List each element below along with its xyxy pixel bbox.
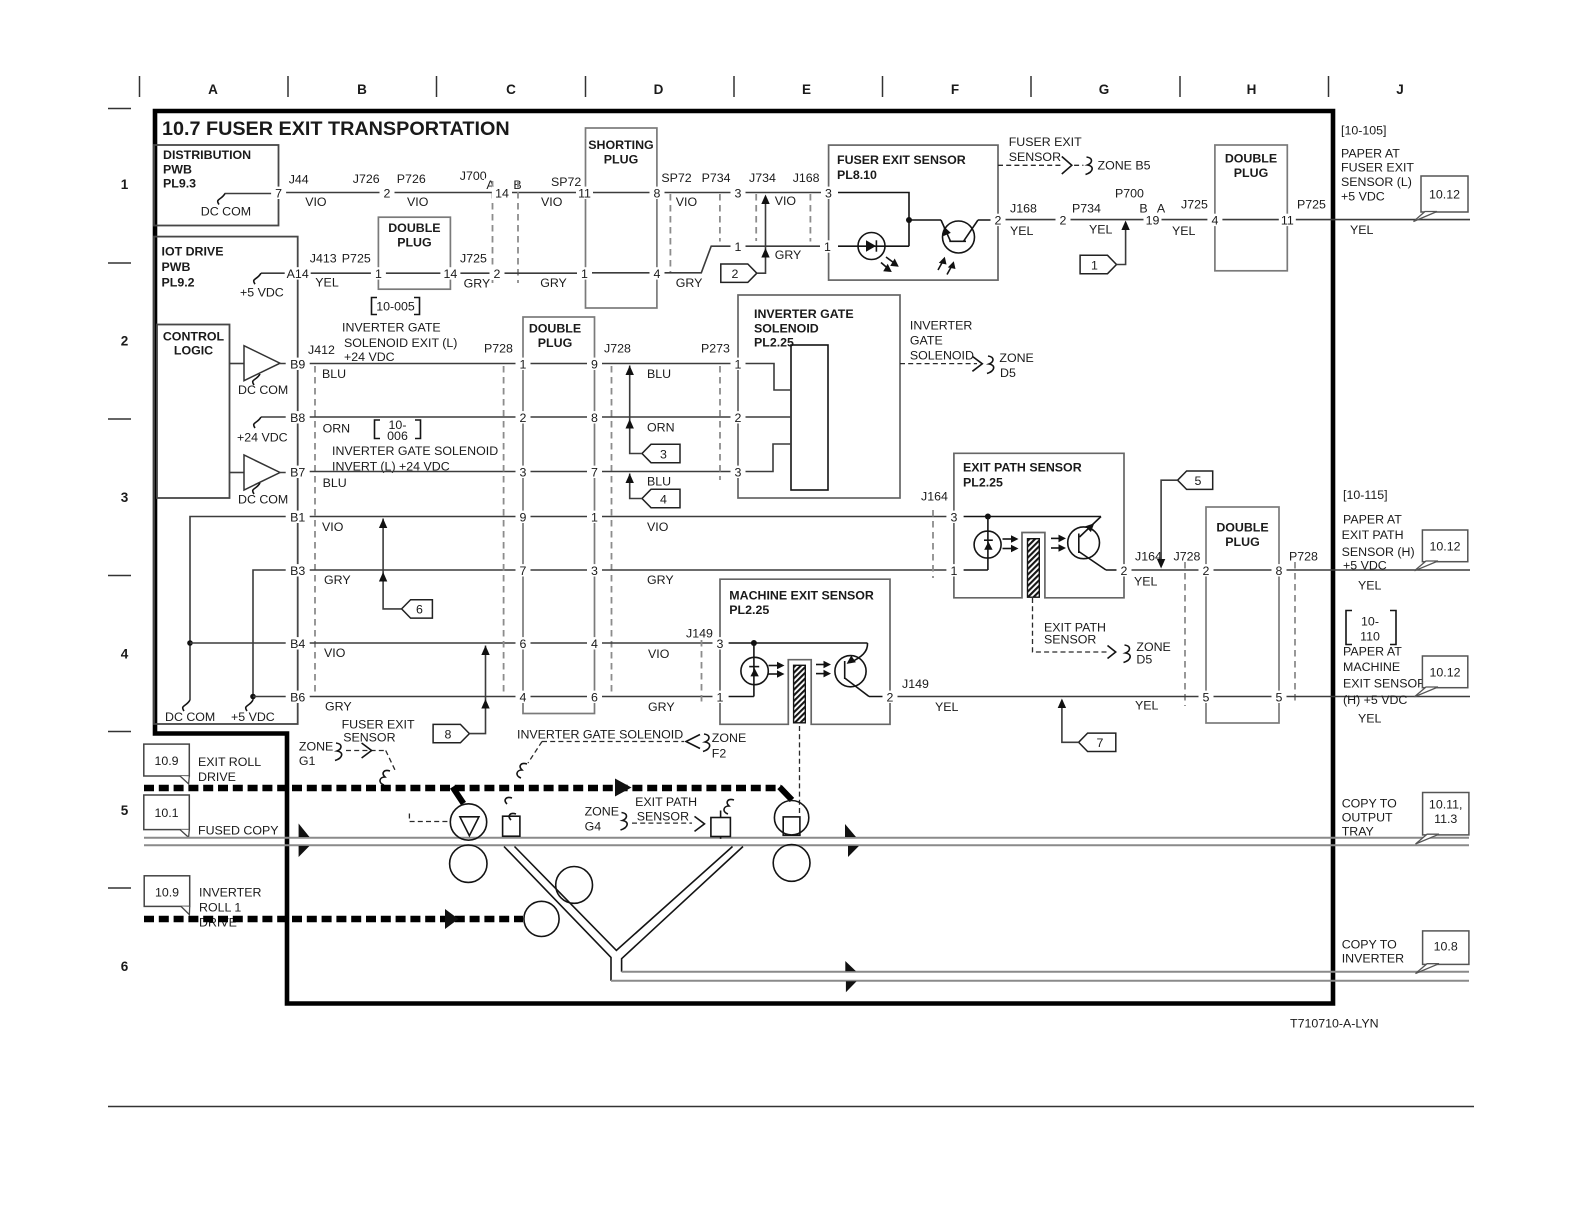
svg-text:ZONE: ZONE [999,351,1033,365]
connector J725 labels [1172,198,1208,238]
+5 VDC bus inside iot pwb [231,570,298,724]
wire YEL row1 out to right margin [1287,219,1470,221]
zone pointer exit path sensor -> zone G4 [585,795,705,834]
svg-text:FUSED COPY: FUSED COPY [198,824,279,838]
pin 14 double plug 1 [440,267,460,279]
svg-text:P728: P728 [1289,550,1318,564]
svg-text:10.8: 10.8 [1434,940,1458,954]
wire GRY B3 to exit path sensor pin1 [595,569,954,571]
svg-text:G4: G4 [585,820,602,834]
svg-text:DISTRIBUTION: DISTRIBUTION [163,148,251,162]
svg-text:INVERTER GATE SOLENOID: INVERTER GATE SOLENOID [517,728,683,742]
svg-text:GRY: GRY [775,248,802,262]
svg-text:G: G [1099,82,1110,97]
svg-text:EXIT SENSOR: EXIT SENSOR [1343,677,1426,691]
distribution pwb box PL9.3 [154,145,279,226]
dashed connector line J734 [755,194,757,241]
svg-text:3: 3 [735,465,742,479]
wire VIO row1: J44 to shorting plug [279,192,586,194]
dashed connector line P728 output side [1294,562,1296,704]
flag 5 callout [1157,471,1213,569]
wire VIO row B1 [298,516,523,518]
svg-text:6: 6 [416,603,423,617]
svg-text:B6: B6 [290,690,305,704]
wire YEL row3 to right margin [1279,569,1470,571]
svg-text:F2: F2 [712,747,727,761]
svg-text:INVERTER: INVERTER [1342,952,1404,966]
pin 2 P734 output [1056,214,1071,226]
inverter mid roller upper [556,867,593,904]
wire YEL row4 to right margin [1279,696,1470,698]
copy to inverter paper path line upper [622,971,1469,973]
svg-text:GRY: GRY [324,573,351,587]
svg-text:P728: P728 [484,342,513,356]
svg-text:1: 1 [121,177,129,192]
double plug box 3 [1206,507,1279,723]
svg-text:SOLENOID EXIT (L): SOLENOID EXIT (L) [344,336,457,350]
wire YEL row2: A14 to double plug 1 [298,272,379,274]
svg-text:+5 VDC: +5 VDC [231,710,275,724]
exit path sensor phototransistor [1068,517,1124,571]
svg-text:VIO: VIO [407,195,429,209]
svg-text:4: 4 [654,267,661,281]
pin 1 J734 [731,240,746,252]
svg-text:BLU: BLU [647,367,671,381]
svg-text:P734: P734 [702,171,731,185]
svg-text:VIO: VIO [775,194,797,208]
pin 11 double plug 4 [1279,214,1296,226]
svg-text:PL8.10: PL8.10 [837,168,877,182]
svg-text:+5 VDC: +5 VDC [240,286,284,300]
svg-text:D5: D5 [1000,366,1016,380]
svg-text:1: 1 [1091,258,1098,272]
DC COM bus inside iot pwb [165,517,298,725]
flag 7 callout [1058,699,1116,752]
svg-text:A: A [208,82,218,97]
zone pointer inverter gate solenoid -> ZONE F2 [517,728,746,779]
svg-text:2: 2 [887,690,894,704]
svg-text:CONTROL: CONTROL [163,330,225,344]
svg-text:7: 7 [520,564,527,578]
svg-text:VIO: VIO [676,195,698,209]
dashed connector line P728 [503,366,505,696]
svg-text:P725: P725 [1297,198,1326,212]
svg-text:GRY: GRY [464,276,491,290]
svg-text:10.12: 10.12 [1429,666,1460,680]
dashed connector line J164 [932,510,934,578]
wire B4 inside iot pwb [190,642,298,644]
svg-text:DC COM: DC COM [238,493,288,507]
svg-text:PLUG: PLUG [538,336,572,350]
svg-text:10.9: 10.9 [154,754,178,768]
pin B4 [286,637,310,649]
svg-text:9: 9 [520,510,527,524]
svg-text:10.12: 10.12 [1429,540,1460,554]
squiggle link to square sensor 1 [505,797,516,820]
svg-text:EXIT ROLL: EXIT ROLL [198,755,261,769]
pin 2 J726 [380,187,395,199]
svg-text:ZONE: ZONE [712,731,746,745]
svg-text:10.1: 10.1 [154,806,178,820]
svg-text:EXIT PATH SENSOR: EXIT PATH SENSOR [963,461,1082,475]
exit path sensor box PL2.25 [954,453,1124,598]
connector J725 pin2 labels [460,252,567,291]
fuser exit sensor phototransistor [938,220,998,275]
connector J168/P734 output labels [1010,202,1113,238]
pin 14 J700 [492,187,512,199]
svg-text:11.3: 11.3 [1434,812,1457,826]
pin 2 fuser exit sensor [991,214,1006,226]
wire BLU row B7 [298,471,523,473]
svg-text:INVERTER: INVERTER [199,886,261,900]
wire inside shorting plug row1 [586,192,657,194]
zone pointer fuser exit sensor -> zone G1 [299,718,415,786]
dashed connector line J728 [611,366,613,696]
connector J726 P726 labels [353,172,429,209]
svg-text:DOUBLE: DOUBLE [1225,152,1277,166]
svg-text:YEL: YEL [1010,224,1034,238]
wire ORN B8 to P273 [595,416,739,418]
svg-text:GRY: GRY [540,276,567,290]
svg-text:H: H [1247,82,1257,97]
svg-text:8: 8 [445,727,452,741]
svg-text:SENSOR: SENSOR [343,731,395,745]
zone pointer exit path sensor -> ZONE D5 [1033,598,1171,667]
double plug box 1 [378,217,450,289]
exit path sensor LED [974,531,1018,558]
svg-text:ROLL 1: ROLL 1 [199,901,241,915]
svg-text:E: E [802,82,811,97]
wire YEL exit path sensor output to double plug 3 [1124,569,1206,571]
double plug 2 left pins 1,2,3,9,7,6,4 [516,358,531,370]
iot drive pwb box PL9.2 [154,237,298,724]
svg-text:8: 8 [1276,564,1283,578]
flag 4 callout [626,474,681,508]
svg-text:YEL: YEL [1172,224,1196,238]
pin 3 J168 [821,187,836,199]
svg-text:PL2.25: PL2.25 [754,336,794,350]
wire VIO B1 to exit path sensor pin3 [595,516,954,518]
paper path arrows middle [845,824,856,837]
wire YEL machine exit sensor output to double plug 3 [890,696,1206,698]
svg-text:J: J [1396,82,1404,97]
svg-text:B7: B7 [290,465,305,479]
dashed connector line J728 output side [1184,562,1186,706]
svg-text:FUSER EXIT: FUSER EXIT [1341,161,1414,175]
svg-text:3: 3 [660,447,667,461]
connector SP72/P734 labels [661,171,730,209]
inverter gate solenoid box PL2.25 [738,295,900,498]
machine exit sensor box PL2.25 [720,579,890,724]
connector J164 J728 output labels [1134,550,1200,589]
svg-text:110: 110 [1360,630,1380,644]
svg-text:J168: J168 [1010,202,1037,216]
zone pointer inverter gate solenoid -> ZONE D5 [900,319,1034,381]
pin 1 double plug 1 [371,267,386,279]
svg-text:PAPER AT: PAPER AT [1343,645,1402,659]
svg-text:COPY TO: COPY TO [1342,938,1397,952]
svg-text:J149: J149 [902,677,929,691]
svg-text:DC COM: DC COM [201,205,251,219]
pin 11 shorting plug left [576,187,593,199]
zone pointer fuser exit sensor -> ZONE B5 [998,135,1151,175]
connector J44 labels [289,173,327,209]
svg-text:14: 14 [444,267,458,281]
svg-text:YEL: YEL [935,700,959,714]
machine exit sensor pins 3,1,2 [713,637,728,649]
dashed connector line J700 A [492,181,494,283]
svg-text:8: 8 [591,411,598,425]
pin B7 [286,466,310,478]
svg-text:YEL: YEL [1134,575,1158,589]
svg-text:T710710-A-LYN: T710710-A-LYN [1290,1017,1379,1031]
wire VIO row B4 [298,642,523,644]
net label inverter gate solenoid invert [332,444,498,474]
machine exit sensor phototransistor [835,643,890,697]
exit path sensor shutter [1028,535,1067,598]
svg-text:PL9.3: PL9.3 [163,177,196,191]
svg-text:B1: B1 [290,510,305,524]
wire VIO row1: shorting plug to fuser exit sensor [657,192,829,194]
svg-text:MACHINE: MACHINE [1343,660,1400,674]
svg-text:GRY: GRY [325,699,352,713]
svg-text:PAPER AT: PAPER AT [1341,147,1400,161]
svg-text:SOLENOID: SOLENOID [754,322,819,336]
svg-text:DRIVE: DRIVE [198,770,236,784]
callout 10.1 fused copy [144,795,190,837]
dashed connector line J168 [809,194,811,242]
svg-text:19: 19 [1146,213,1160,227]
svg-text:2: 2 [1203,564,1210,578]
inverter mid roller lower [524,901,559,936]
callout 10.12 row4 [1415,656,1468,697]
svg-text:LOGIC: LOGIC [174,344,213,358]
control logic box [157,325,230,499]
svg-text:PAPER AT: PAPER AT [1343,513,1402,527]
wire BLU row B9 [298,363,523,365]
svg-text:+24 VDC: +24 VDC [237,431,288,445]
pin 4 shorting plug right [650,267,665,279]
svg-text:SENSOR (L): SENSOR (L) [1341,175,1412,189]
svg-text:DOUBLE: DOUBLE [388,221,440,235]
svg-text:4: 4 [591,637,598,651]
wire BLU B9 to P273 [595,363,739,365]
svg-text:INVERTER: INVERTER [910,319,972,333]
svg-text:10-: 10- [1361,615,1379,629]
svg-text:YEL: YEL [1089,223,1113,237]
connector J734/J168 labels [749,171,820,208]
svg-text:J412: J412 [308,343,335,357]
wire GRY row B6 [298,696,523,698]
pin 1 J168 [820,240,835,252]
bracket label 10-006 [375,418,421,443]
svg-text:3: 3 [520,465,527,479]
dashed connector line SP72 [669,194,671,273]
svg-text:D: D [654,82,664,97]
exit path sensor internal wiring [964,514,1101,571]
svg-text:PL2.25: PL2.25 [963,476,1003,490]
svg-text:6: 6 [520,637,527,651]
right text block paper at fuser exit sensor [1341,124,1414,204]
pin B6 [286,691,310,703]
svg-text:+5 VDC: +5 VDC [1341,190,1385,204]
buffer gate B9 [230,346,298,397]
inverter belt arrow [445,909,459,929]
svg-text:3: 3 [735,186,742,200]
svg-text:J164: J164 [921,490,948,504]
exit path sensor pins 3,1,2 [946,511,961,523]
svg-text:8: 8 [654,186,661,200]
connector P725 label [1297,198,1374,237]
wire VIO B4 to machine exit sensor pin3 [595,642,721,644]
connector J700 labels A/B [460,169,582,209]
GRY labels row2 right [676,248,802,290]
callout 10.11, 11.3 [1416,793,1469,845]
svg-text:YEL: YEL [1135,699,1159,713]
svg-text:+24 VDC: +24 VDC [344,350,395,364]
svg-text:B4: B4 [290,637,305,651]
svg-text:3: 3 [591,564,598,578]
svg-text:3: 3 [950,510,957,524]
shorting plug box [586,128,657,308]
svg-text:P700: P700 [1115,187,1144,201]
svg-text:10-005: 10-005 [376,300,415,314]
svg-text:[10-115]: [10-115] [1343,488,1388,502]
pin B1 [286,511,310,523]
copy to inverter paper path line lower [611,980,1469,982]
svg-text:6: 6 [591,690,598,704]
belt hook to gate roller [453,787,464,804]
solenoid pins 1,2,3 [731,358,746,370]
pin number labels with gaps [271,186,1296,704]
svg-text:FUSER EXIT: FUSER EXIT [342,718,415,732]
svg-text:F: F [951,82,959,97]
double plug 3 pins 2,8,5,5 [1199,564,1214,576]
wire ORN row B8 [298,416,523,418]
inverter roll drive belt band [144,916,523,923]
svg-text:BLU: BLU [647,474,671,488]
label copy to output tray [1342,797,1397,839]
svg-text:1: 1 [591,510,598,524]
svg-text:MACHINE EXIT SENSOR: MACHINE EXIT SENSOR [729,589,874,603]
svg-text:OUTPUT: OUTPUT [1342,811,1393,825]
svg-text:P725: P725 [342,252,371,266]
wire GRY row B3 [298,569,523,571]
flag 6 callout [379,519,433,619]
svg-text:PLUG: PLUG [1225,535,1259,549]
svg-text:C: C [506,82,516,97]
svg-text:A14: A14 [287,267,309,281]
svg-text:1: 1 [735,357,742,371]
svg-text:2: 2 [732,267,739,281]
roller below gate [450,845,487,882]
dashed connector line J700 B [517,181,519,283]
svg-text:2: 2 [384,186,391,200]
svg-text:P734: P734 [1072,202,1101,216]
svg-text:B3: B3 [290,564,305,578]
svg-text:J734: J734 [749,171,776,185]
svg-text:SHORTING: SHORTING [588,138,653,152]
fuser exit sensor box PL8.10 [829,145,998,280]
svg-text:J728: J728 [604,342,631,356]
paper path arrows left [299,824,310,838]
svg-text:ZONE: ZONE [585,805,619,819]
exit roll drive belt band [144,785,781,792]
svg-text:10.9: 10.9 [155,886,179,900]
flag 8 callout [433,646,490,743]
wire BLU B7 to P273 [595,471,739,473]
footer rule [108,1106,1474,1108]
+24 VDC net stub at B8 [237,417,298,445]
svg-text:7: 7 [591,465,598,479]
svg-text:YEL: YEL [1358,579,1382,593]
svg-text:DC COM: DC COM [165,710,215,724]
svg-text:3: 3 [121,490,129,505]
label exit roll drive [198,755,261,784]
svg-text:GRY: GRY [648,700,675,714]
double plug 2 right pins 9,8,7,1,3,4,6 [587,358,602,370]
svg-text:[10-105]: [10-105] [1341,124,1386,138]
svg-text:6: 6 [121,959,129,974]
svg-text:COPY TO: COPY TO [1342,797,1397,811]
svg-text:J725: J725 [1181,198,1208,212]
svg-text:SENSOR: SENSOR [1009,150,1061,164]
callout 10.8 [1416,931,1469,974]
svg-text:SOLENOID: SOLENOID [910,349,974,363]
fuser exit sensor internal wiring [838,193,941,247]
svg-text:ORN: ORN [647,420,675,434]
callout 10.12 row1 [1414,176,1469,222]
flag 1 callout [1080,221,1130,274]
svg-text:DOUBLE: DOUBLE [1216,521,1268,535]
svg-text:SENSOR: SENSOR [1044,633,1096,647]
buffer gate B7 [230,455,298,507]
row tick marks [108,109,131,889]
svg-text:BLU: BLU [322,367,346,381]
svg-text:EXIT PATH: EXIT PATH [635,795,697,809]
dashed connector line J412 [314,366,316,696]
svg-text:VIO: VIO [322,520,344,534]
svg-text:J726: J726 [353,172,380,186]
pin B9 [286,358,310,370]
svg-text:IOT DRIVE: IOT DRIVE [162,245,224,259]
svg-text:EXIT PATH: EXIT PATH [1342,528,1404,542]
wire GRY B6 to machine exit sensor pin1 [595,696,721,698]
svg-text:2: 2 [121,334,129,349]
svg-text:VIO: VIO [541,195,563,209]
svg-text:5: 5 [1203,690,1210,704]
svg-text:1: 1 [824,240,831,254]
svg-text:SP72: SP72 [661,171,691,185]
svg-text:P273: P273 [701,342,730,356]
net label inverter gate solenoid exit [342,321,457,365]
pin 4 double plug 4 [1207,214,1222,226]
svg-text:2: 2 [520,411,527,425]
svg-text:TRAY: TRAY [1342,825,1374,839]
wire inside double plug 1 [378,272,450,274]
svg-text:DC COM: DC COM [238,383,288,397]
pin 7 distribution pwb [271,187,286,199]
gate solenoid roller with triangle [450,804,486,840]
svg-text:ZONE B5: ZONE B5 [1098,159,1151,173]
pin B3 [286,564,310,576]
svg-text:J728: J728 [1174,550,1201,564]
svg-text:11: 11 [578,186,591,200]
pin 8 shorting plug right [650,187,665,199]
svg-text:GATE: GATE [910,334,943,348]
svg-text:DOUBLE: DOUBLE [529,322,581,336]
callout 10.12 row3 [1415,530,1468,571]
